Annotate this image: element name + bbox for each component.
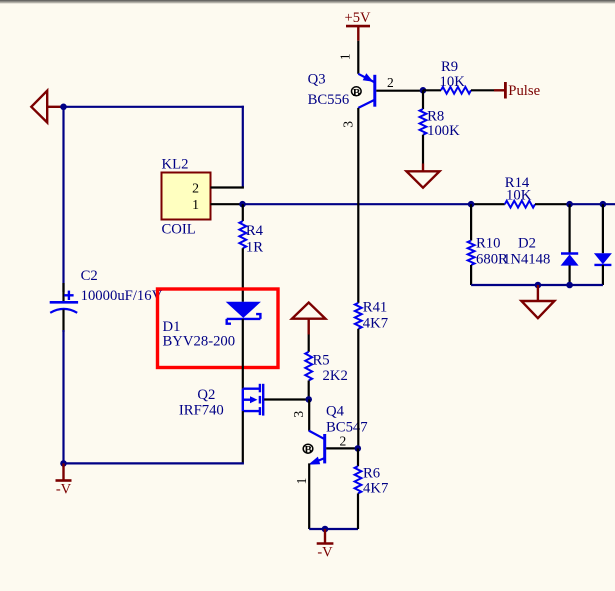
power port arrow (left) <box>31 91 60 123</box>
svg-text:100K: 100K <box>427 123 460 139</box>
svg-text:R8: R8 <box>427 109 444 125</box>
node junction top-left <box>60 104 67 111</box>
node junction diode D2b top <box>600 201 607 208</box>
R6 lead top <box>357 448 359 466</box>
wire: R41 to Q4 base junction <box>357 329 359 449</box>
connector KL2 <box>162 157 211 238</box>
selection rectangle around D1 <box>158 289 279 368</box>
svg-text:IRF740: IRF740 <box>179 403 224 419</box>
svg-text:Q4: Q4 <box>326 404 345 420</box>
svg-text:R6: R6 <box>363 466 380 482</box>
svg-text:3: 3 <box>291 411 306 418</box>
node junction -V left <box>60 460 67 467</box>
svg-text:1: 1 <box>337 53 352 60</box>
capacitor C2 <box>50 283 78 332</box>
wire: down to KL2 pin 2 <box>242 106 244 188</box>
Q4 base stub (pin 2) <box>326 447 358 449</box>
node junction diode D2a top <box>566 201 573 208</box>
node junction pin1/R4 <box>239 201 246 208</box>
svg-text:1N4148: 1N4148 <box>503 252 550 268</box>
resistor R8 <box>420 109 427 135</box>
Q3 pin B circle glyph <box>352 87 362 99</box>
svg-text:2: 2 <box>340 434 347 449</box>
R9 lead right <box>471 89 494 91</box>
wire: rail to right edge <box>570 203 615 205</box>
wire: Q2 source down <box>242 411 244 463</box>
node junction D2a bottom <box>566 282 573 289</box>
svg-text:10000uF/16V: 10000uF/16V <box>81 288 163 304</box>
diode D2a (pointing up) <box>561 204 579 285</box>
svg-text:BYV28-200: BYV28-200 <box>163 334 236 350</box>
svg-text:4K7: 4K7 <box>363 481 388 497</box>
R5 lead bottom <box>308 381 310 400</box>
wire: junction to Q4 collector <box>308 399 310 430</box>
wire: +5V to Q3 emitter <box>357 41 359 74</box>
node junction Q4 base / R6 <box>355 445 362 452</box>
wire: bottom rail left <box>64 462 244 464</box>
svg-text:10K: 10K <box>506 187 532 203</box>
node junction -V mid <box>322 526 329 533</box>
resistor R14 <box>505 201 535 208</box>
transistor Q4 BC547 <box>308 431 324 465</box>
resistor R10 <box>468 241 475 266</box>
R14 lead right <box>535 203 570 205</box>
svg-text:R41: R41 <box>363 300 387 316</box>
svg-text:R5: R5 <box>313 353 330 369</box>
diode D1 BYV28-200 <box>226 302 261 324</box>
ground symbol (bottom right) <box>521 285 554 318</box>
wire: left vertical (to C2) <box>62 107 64 292</box>
svg-text:1: 1 <box>192 197 199 212</box>
svg-text:Q2: Q2 <box>197 387 215 403</box>
power port +5V <box>346 26 370 41</box>
Q3 base stub (pin 2) <box>376 90 423 92</box>
node junction Q3 base <box>420 87 427 94</box>
svg-text:4K7: 4K7 <box>363 316 388 332</box>
R8 lead top <box>422 90 424 109</box>
transistor Q2 IRF740 (MOSFET) <box>243 384 263 416</box>
resistor R4 <box>239 221 246 248</box>
power port -V (left) <box>56 463 72 480</box>
node junction R14/R10 <box>468 201 475 208</box>
transistor Q3 BC556 <box>358 73 375 108</box>
Q4 pin B circle glyph <box>303 444 313 456</box>
svg-text:3: 3 <box>341 121 356 128</box>
wire: C2 to -V rail <box>62 330 64 463</box>
node junction gnd stem <box>535 282 542 289</box>
port Pulse <box>494 82 505 99</box>
R6 lead bottom <box>357 493 359 529</box>
svg-text:-V: -V <box>56 482 72 498</box>
power port -V (mid) <box>317 529 334 544</box>
svg-text:10K: 10K <box>440 74 466 90</box>
KL2 pin 1 stub <box>211 203 243 205</box>
svg-text:2: 2 <box>192 181 199 196</box>
wire: rail from KL2 pin1 to R14 <box>243 203 472 205</box>
wire: top horizontal <box>64 106 244 108</box>
wire: D1 to Q2 drain <box>242 319 244 389</box>
wire: Q3 collector down to R41 <box>357 108 359 303</box>
svg-text:1R: 1R <box>246 239 263 255</box>
svg-text:-V: -V <box>317 545 333 561</box>
diode D2b (pointing down) <box>594 204 612 285</box>
resistor R5 <box>305 352 312 381</box>
Q2 gate stub <box>264 398 309 400</box>
svg-text:COIL: COIL <box>162 222 196 238</box>
svg-text:D2: D2 <box>518 236 536 252</box>
wire: bottom-right rail <box>471 284 603 286</box>
KL2 pin 2 stub <box>211 186 244 188</box>
R4 lead bottom / wire to D1 <box>242 248 244 302</box>
svg-text:R10: R10 <box>476 236 500 252</box>
resistor R6 <box>355 466 362 493</box>
ground symbol (under R8) <box>407 164 440 188</box>
svg-text:R4: R4 <box>246 223 264 239</box>
wire: Q4 bottom rail <box>309 528 358 530</box>
svg-text:Pulse: Pulse <box>508 83 540 99</box>
R9 lead left <box>423 89 441 91</box>
power port up arrow (above R5) <box>292 303 325 335</box>
svg-text:B: B <box>305 444 313 456</box>
resistor R41 <box>355 303 362 329</box>
svg-text:C2: C2 <box>81 268 98 284</box>
wire: Q4 emitter down <box>308 463 310 529</box>
R5 lead top <box>308 335 310 352</box>
R10 lead top <box>470 204 472 240</box>
svg-text:KL2: KL2 <box>162 157 189 173</box>
node junction gate/R5/Q4 <box>305 396 312 403</box>
svg-text:2: 2 <box>387 75 394 90</box>
svg-text:BC556: BC556 <box>308 92 350 108</box>
svg-text:2K2: 2K2 <box>323 368 348 384</box>
R14 lead left <box>471 203 505 205</box>
R8 lead bottom <box>422 135 424 164</box>
svg-text:Q3: Q3 <box>308 72 326 88</box>
svg-text:BC547: BC547 <box>326 420 368 436</box>
R10 lead bottom <box>470 265 472 285</box>
svg-text:1: 1 <box>294 478 309 485</box>
svg-text:B: B <box>353 87 361 99</box>
svg-text:R9: R9 <box>441 59 458 75</box>
R4 lead top <box>242 204 244 221</box>
resistor R9 <box>441 87 471 94</box>
svg-text:+5V: +5V <box>345 10 371 26</box>
